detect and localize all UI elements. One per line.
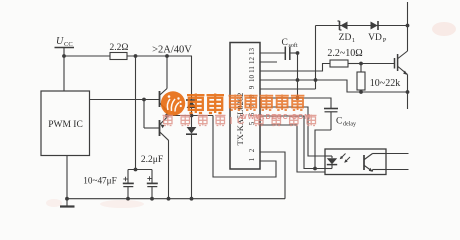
zener ZD1 — [338, 21, 356, 44]
node base tie — [142, 98, 146, 102]
wire top left — [64, 55, 110, 57]
wire pin 10 — [260, 80, 361, 92]
wire pin 7 — [260, 107, 325, 156]
node source right — [406, 90, 410, 94]
svg-text:CC: CC — [64, 41, 73, 48]
svg-text:C: C — [282, 38, 288, 48]
wire cap feed vertical — [135, 56, 137, 170]
svg-text:2.2Ω: 2.2Ω — [110, 43, 129, 53]
svg-text:delay: delay — [343, 122, 356, 128]
wire source — [361, 91, 408, 93]
wire pin 5 — [260, 125, 325, 172]
wire gate — [361, 63, 395, 65]
svg-text:1: 1 — [352, 37, 355, 44]
wire R1 to diode branch — [127, 55, 192, 57]
capacitor C1 10~47µF — [83, 170, 133, 199]
wire pin 9 — [260, 88, 316, 90]
svg-text:13: 13 — [248, 48, 256, 56]
wire pin 8 — [260, 98, 331, 109]
label >2A/40V — [152, 45, 192, 56]
svg-text:10~22k: 10~22k — [370, 78, 400, 89]
wire to IC pin 1 — [213, 116, 276, 178]
wire pin 6 — [260, 116, 325, 169]
node Ucc junction — [62, 54, 66, 58]
wire caps link — [128, 169, 152, 171]
wire clamp top — [316, 25, 408, 27]
node Csoft — [296, 51, 300, 55]
node A y80 — [296, 78, 300, 82]
svg-text:U: U — [56, 36, 64, 47]
optocoupler LED arrows — [340, 154, 350, 163]
node A y98 — [296, 96, 300, 100]
optocoupler LED — [325, 156, 337, 169]
svg-text:10~47μF: 10~47μF — [83, 176, 116, 186]
PWM IC U2 — [41, 91, 90, 156]
wire opto collector out — [386, 153, 409, 155]
wire base tie — [144, 100, 160, 129]
resistor R2 2.2~10Ω — [327, 48, 362, 67]
optocoupler U3 body — [325, 149, 386, 175]
resistor R3 10~22k — [357, 64, 400, 93]
resistor R1 2.2Ω — [110, 43, 129, 60]
node rail C1 — [126, 197, 130, 201]
node diode junction — [190, 114, 194, 118]
wire pin 13 — [260, 52, 285, 54]
capacitor C_soft — [282, 38, 298, 60]
node A2 — [165, 54, 169, 58]
wire pin 2 — [260, 152, 285, 199]
svg-text:PWM IC: PWM IC — [48, 120, 83, 130]
transistor Q2 — [160, 116, 169, 199]
watermark logo and text — [161, 91, 317, 127]
wire opto emitter out — [386, 169, 409, 171]
IC U1 TX-KA5L0262 body — [230, 43, 260, 170]
svg-text:11: 11 — [248, 66, 256, 73]
node caps junction — [134, 168, 138, 172]
wire Ucc to PWM IC — [63, 56, 65, 91]
wire drain — [407, 2, 409, 51]
node rail Q2 — [167, 197, 171, 201]
capacitor C_delay — [324, 109, 356, 131]
wire output — [167, 115, 213, 117]
wire clamp line B — [315, 26, 317, 90]
svg-text:C: C — [336, 117, 342, 127]
power terminal Ucc — [55, 36, 75, 56]
ground — [60, 197, 75, 207]
svg-text:2.2~10Ω: 2.2~10Ω — [327, 48, 362, 59]
wire PWM output — [90, 99, 160, 101]
node drain clamp — [406, 24, 410, 28]
svg-text:VD: VD — [368, 33, 382, 43]
transistor Q1 — [160, 56, 168, 116]
svg-text:2: 2 — [248, 148, 256, 152]
watermark smudges — [46, 22, 456, 208]
wire node line A — [297, 53, 299, 98]
IC U1 label — [235, 93, 245, 146]
IC U1 pin numbers — [248, 48, 256, 162]
wire source down — [407, 74, 409, 109]
wire Cdelay return — [315, 130, 331, 169]
wire ground rail — [67, 198, 285, 200]
svg-text:>2A/40V: >2A/40V — [152, 45, 192, 56]
node A1 — [134, 54, 138, 58]
diode VD1 — [186, 56, 197, 116]
node rail VD2 — [190, 197, 194, 201]
wire pin 11 gate drive — [260, 64, 330, 72]
node B y80 — [314, 78, 318, 82]
svg-text:ZD: ZD — [339, 33, 352, 43]
node gate — [359, 62, 363, 66]
node rail C2 — [150, 197, 154, 201]
diode VDP — [368, 21, 387, 44]
svg-text:soft: soft — [289, 42, 298, 49]
svg-text:9: 9 — [248, 85, 256, 89]
optocoupler phototransistor — [364, 154, 386, 172]
wire PWM to ground — [66, 156, 68, 199]
wire pin 12 stub — [260, 61, 277, 63]
node source left — [359, 90, 363, 94]
svg-text:1: 1 — [248, 157, 256, 161]
transistor V1 IGBT — [395, 51, 408, 75]
diode VD2 — [186, 116, 197, 199]
capacitor C2 2.2µF — [141, 155, 163, 199]
node emitter junction — [165, 114, 169, 118]
svg-text:12: 12 — [248, 57, 256, 65]
svg-text:IC: IC — [230, 115, 250, 127]
svg-text:P: P — [383, 37, 387, 44]
node LED cathode — [313, 167, 317, 171]
svg-text:2.2μF: 2.2μF — [141, 155, 163, 165]
svg-text:10: 10 — [248, 75, 256, 83]
